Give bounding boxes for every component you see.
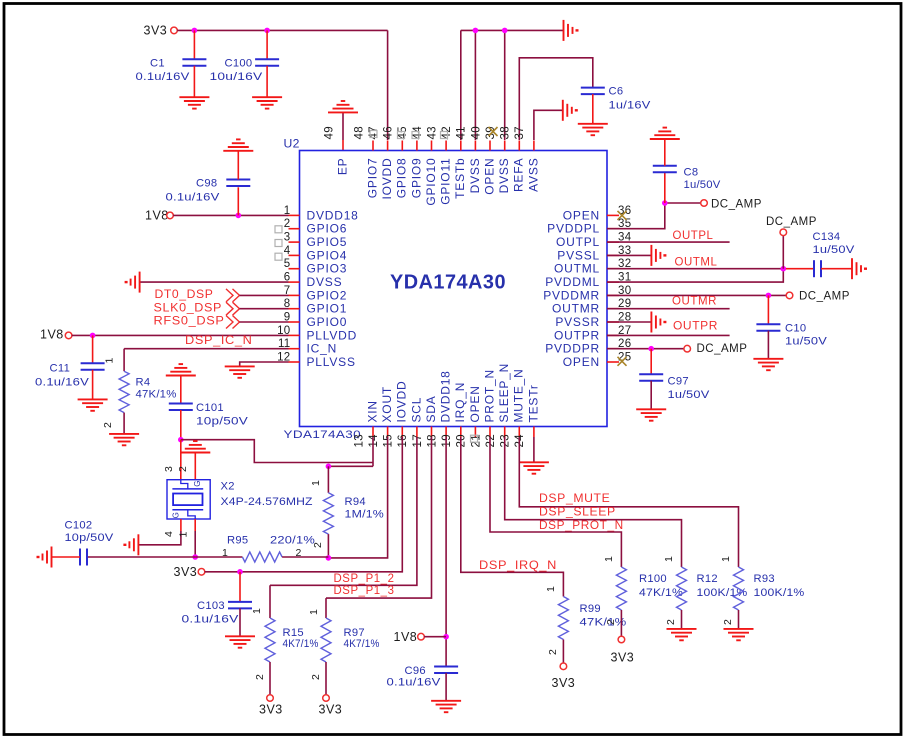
- svg-text:OUTPL: OUTPL: [673, 228, 714, 242]
- squares on top pin numbers: [370, 131, 377, 138]
- wire AVSS pin 37 to ground: [534, 110, 563, 140]
- wire DT0_DSP to pin 7: [240, 294, 289, 296]
- wire PROT_N pin 21 to R100: [490, 437, 621, 567]
- svg-text:PVDDMR: PVDDMR: [543, 288, 600, 302]
- ground (C134, right-facing): [851, 258, 853, 279]
- svg-text:C96: C96: [405, 665, 426, 677]
- svg-text:R4: R4: [136, 377, 151, 389]
- svg-text:40: 40: [470, 126, 482, 139]
- svg-text:C11: C11: [50, 363, 71, 375]
- svg-text:4K7/1%: 4K7/1%: [283, 638, 319, 650]
- svg-text:OUTPR: OUTPR: [673, 319, 718, 333]
- junction R94 top: [326, 464, 332, 470]
- svg-text:SLEEP_N: SLEEP_N: [497, 363, 511, 423]
- svg-text:1: 1: [308, 609, 320, 615]
- svg-text:13: 13: [353, 434, 365, 447]
- junction C10/DC_AMP: [766, 293, 772, 299]
- wire crystal pin 3 from C101 node: [180, 440, 182, 480]
- svg-text:4: 4: [163, 531, 175, 537]
- svg-text:2: 2: [296, 547, 302, 559]
- svg-text:19: 19: [441, 434, 453, 447]
- svg-text:1u/50V: 1u/50V: [684, 179, 721, 191]
- resistor R12: [677, 567, 687, 610]
- svg-text:GPIO9: GPIO9: [409, 158, 423, 199]
- svg-text:2: 2: [254, 674, 266, 680]
- right pin numbers 36-25: [618, 205, 632, 364]
- capacitor C98: [237, 187, 239, 215]
- wire 3V3 to pin 15 IOVDD: [205, 437, 403, 572]
- wire SLK0_DSP to pin 8: [240, 308, 289, 310]
- top pin numbers 48-37: [353, 126, 526, 140]
- svg-text:IOVDD: IOVDD: [395, 380, 409, 422]
- svg-text:DSP_IRQ_N: DSP_IRQ_N: [479, 558, 557, 572]
- wire DVDD18 pin 18 to C96: [445, 437, 447, 667]
- svg-text:C8: C8: [684, 167, 699, 179]
- svg-text:YDA174A30: YDA174A30: [284, 429, 362, 441]
- svg-text:IC_N: IC_N: [307, 342, 338, 356]
- ground (C11): [78, 398, 108, 400]
- svg-text:C1: C1: [150, 58, 165, 70]
- svg-text:C97: C97: [668, 376, 689, 388]
- ground (C6): [578, 123, 608, 125]
- junction C8/DC_AMP: [662, 200, 668, 206]
- wire PVDDMR pin 30 to C10/DC_AMP: [607, 294, 786, 296]
- svg-text:220/1%: 220/1%: [270, 535, 315, 547]
- wire RFS0_DSP to pin 9: [240, 321, 289, 323]
- wire 3V3 rail to pin 47 IOVDD: [177, 29, 387, 31]
- svg-text:GPIO6: GPIO6: [307, 222, 348, 236]
- wire SDA pin 17 to R97: [326, 437, 432, 598]
- wire 1V8 to pin 10 PLLVDD: [72, 334, 289, 336]
- svg-text:47K/1%: 47K/1%: [136, 389, 177, 401]
- wire PLLVSS pin 12 to ground: [240, 362, 289, 366]
- svg-text:DSP_PROT_N: DSP_PROT_N: [539, 518, 624, 532]
- wire XIN to R94: [328, 465, 373, 467]
- top pins 48-37 stubs: [373, 141, 534, 151]
- svg-text:EP: EP: [335, 158, 349, 176]
- svg-text:SLK0_DSP: SLK0_DSP: [154, 300, 223, 314]
- svg-text:OUTPL: OUTPL: [556, 235, 600, 249]
- svg-text:OPEN: OPEN: [482, 158, 496, 195]
- node 1V8 open circle: [167, 212, 174, 219]
- wire DSP_IC_N / R4 to pin 11 IC_N: [124, 348, 288, 350]
- node 3V3 open circle (bottom): [198, 569, 205, 576]
- svg-text:XOUT: XOUT: [380, 386, 394, 423]
- svg-text:PVSSR: PVSSR: [555, 315, 600, 329]
- svg-text:C103: C103: [197, 600, 225, 612]
- svg-text:1V8: 1V8: [145, 209, 169, 223]
- capacitor C10: [767, 295, 769, 324]
- wire MUTE_N pin 23 to R93: [519, 437, 738, 567]
- no-connect X mark pin 40 OPEN: [489, 127, 498, 136]
- wire crystal pin 1 down: [194, 519, 196, 531]
- svg-text:OPEN: OPEN: [563, 355, 600, 369]
- svg-text:X2: X2: [221, 481, 235, 493]
- resistor R94: [327, 466, 329, 493]
- svg-text:1V8: 1V8: [40, 328, 64, 342]
- svg-text:47K/1%: 47K/1%: [580, 617, 627, 629]
- svg-text:10p/50V: 10p/50V: [65, 532, 114, 544]
- svg-text:G: G: [171, 512, 180, 519]
- svg-text:DC_AMP: DC_AMP: [711, 199, 762, 211]
- svg-text:1u/50V: 1u/50V: [813, 244, 855, 256]
- svg-text:DC_AMP: DC_AMP: [697, 343, 748, 355]
- off-page chevron SLK0_DSP: [226, 302, 233, 315]
- capacitor C102: [79, 549, 81, 566]
- svg-text:GPIO4: GPIO4: [307, 248, 348, 262]
- ground (TESTr): [519, 461, 549, 463]
- svg-text:DVDD18: DVDD18: [439, 370, 453, 422]
- svg-text:YDA174A30: YDA174A30: [390, 272, 506, 294]
- junction on 3V3 rail at C1: [192, 28, 198, 34]
- capacitor C8: [664, 172, 666, 203]
- wire junction to DC_AMP circle: [668, 202, 701, 204]
- svg-text:GPIO1: GPIO1: [307, 302, 348, 316]
- wire DVSS/TESTb top ground rail: [460, 30, 462, 140]
- left pins 1-12 stubs: [289, 215, 300, 362]
- ground (C96): [431, 700, 461, 702]
- node 1V8 open circle (bottom): [418, 633, 425, 640]
- capacitor C101: [180, 376, 182, 404]
- wire OUTPL pin 34: [607, 241, 730, 243]
- ground (C97): [636, 408, 666, 410]
- wire SCL pin 16 to R15: [270, 437, 417, 585]
- capacitor C6: [581, 87, 605, 89]
- svg-text:36: 36: [618, 205, 631, 217]
- ground (EP): [328, 111, 358, 113]
- svg-text:R100: R100: [639, 573, 667, 585]
- svg-text:0.1u/16V: 0.1u/16V: [182, 614, 239, 626]
- svg-text:1: 1: [104, 357, 116, 363]
- wire OUTPR pin 27: [607, 334, 730, 336]
- node 3V3 open circle (R97): [323, 695, 330, 702]
- node DC_AMP open circle (C97): [684, 345, 691, 352]
- svg-text:1: 1: [545, 586, 557, 592]
- svg-text:24: 24: [514, 434, 526, 448]
- svg-text:DVSS: DVSS: [497, 157, 511, 193]
- junction C101/crystal/XOUT path: [178, 437, 184, 443]
- svg-text:GPIO8: GPIO8: [395, 158, 409, 199]
- svg-text:2: 2: [102, 422, 114, 428]
- svg-text:4: 4: [284, 245, 291, 257]
- ground (PVSSR, right-facing): [650, 312, 652, 333]
- svg-text:18: 18: [426, 434, 438, 447]
- svg-text:100K/1%: 100K/1%: [754, 587, 805, 599]
- wire XOUT pin 14 down to R95 junction: [328, 437, 387, 558]
- off-page chevron DT0_DSP: [226, 289, 233, 302]
- junction pin 39 on ground rail: [502, 28, 508, 34]
- node 3V3 open circle (R100): [618, 636, 625, 643]
- junction on 3V3 rail at C100: [264, 28, 270, 34]
- svg-text:1: 1: [663, 556, 675, 562]
- svg-text:DVDD18: DVDD18: [307, 208, 359, 222]
- wire PVDDML pin 31: [607, 269, 783, 282]
- svg-text:23: 23: [500, 434, 512, 447]
- crystal X2: [167, 480, 210, 519]
- svg-text:38: 38: [500, 126, 512, 139]
- node DC_AMP open circle (C10): [786, 292, 793, 299]
- svg-text:TESTr: TESTr: [526, 384, 540, 422]
- svg-text:DC_AMP: DC_AMP: [766, 216, 817, 228]
- left pin numbers 1-12: [277, 205, 291, 364]
- capacitor C97: [650, 349, 652, 375]
- resistor R95: [195, 556, 242, 558]
- svg-text:GPIO7: GPIO7: [365, 158, 379, 199]
- junction R94/R95/XOUT: [326, 555, 332, 561]
- svg-text:OUTML: OUTML: [675, 255, 718, 269]
- node 1V8 open circle (pin 10): [65, 332, 72, 339]
- svg-text:10p/50V: 10p/50V: [196, 416, 248, 428]
- svg-text:44: 44: [412, 126, 424, 140]
- svg-text:PROT_N: PROT_N: [482, 369, 496, 422]
- svg-text:C10: C10: [785, 323, 806, 335]
- wire PVDDPL pin 35 to C8/DC_AMP: [607, 203, 665, 229]
- ground (R93): [724, 628, 754, 630]
- svg-text:IOVDD: IOVDD: [380, 158, 394, 200]
- svg-text:TESTb: TESTb: [453, 158, 467, 199]
- svg-text:U2: U2: [284, 137, 300, 151]
- junction X2 pin1/C102/R95: [192, 554, 198, 560]
- resistor R99: [558, 597, 568, 640]
- svg-text:PLLVDD: PLLVDD: [307, 328, 358, 342]
- ground (C103): [225, 635, 255, 637]
- svg-text:R12: R12: [697, 573, 718, 585]
- ground (C98, above): [223, 150, 253, 152]
- wire PVDDPR pin 26 to C97/DC_AMP: [607, 348, 684, 350]
- svg-text:OUTMR: OUTMR: [552, 302, 600, 316]
- svg-text:C102: C102: [65, 520, 93, 532]
- svg-text:PVDDPR: PVDDPR: [545, 342, 600, 356]
- wire junction to DC_AMP circle (C134): [782, 235, 784, 268]
- svg-text:OUTML: OUTML: [554, 262, 600, 276]
- capacitor C100: [266, 30, 268, 59]
- ground (DVSS pin6, left-facing): [139, 272, 141, 293]
- svg-text:2: 2: [605, 619, 617, 625]
- svg-text:3: 3: [284, 232, 291, 244]
- wire crystal pin 2 from ground: [194, 453, 196, 480]
- wire XIN pin 13 down: [372, 437, 374, 466]
- ground (X2 pin 2, above): [180, 452, 210, 454]
- svg-text:0.1u/16V: 0.1u/16V: [35, 377, 89, 389]
- resistor R15: [269, 585, 271, 618]
- wire C102 to crystal pin 1: [87, 556, 195, 558]
- svg-text:1u/50V: 1u/50V: [668, 389, 710, 401]
- svg-text:OPEN: OPEN: [468, 385, 482, 422]
- svg-text:21: 21: [470, 434, 482, 447]
- svg-text:16: 16: [397, 434, 409, 447]
- bottom pin names: [365, 363, 540, 423]
- svg-text:3V3: 3V3: [259, 703, 283, 717]
- svg-text:14: 14: [368, 434, 380, 448]
- junction C97/DC_AMP: [648, 346, 654, 352]
- svg-text:C98: C98: [196, 178, 217, 190]
- right pin names: [543, 208, 600, 369]
- svg-text:1: 1: [310, 480, 322, 486]
- svg-text:0.1u/16V: 0.1u/16V: [166, 192, 220, 204]
- svg-text:DSP_MUTE: DSP_MUTE: [539, 491, 610, 505]
- top pin names: [335, 157, 540, 205]
- svg-text:GPIO5: GPIO5: [307, 235, 348, 249]
- svg-text:1: 1: [603, 556, 615, 562]
- svg-text:PVDDPL: PVDDPL: [547, 222, 600, 236]
- ground (C101, above): [166, 375, 196, 377]
- ground (PLLVSS): [225, 365, 255, 367]
- wire 1V8 to junction: [424, 636, 446, 638]
- svg-text:SDA: SDA: [424, 395, 438, 422]
- capacitor C103: [239, 572, 241, 602]
- left pin names: [307, 208, 359, 369]
- svg-text:3V3: 3V3: [319, 703, 343, 717]
- ground (C100): [252, 96, 282, 98]
- op-amp/IC U2 YDA174A30 chip body: [300, 151, 608, 427]
- junction C134/DC_AMP: [781, 266, 787, 272]
- wire crystal pin 4 to side ground: [180, 519, 182, 531]
- wire XOUT path (C101 node to pin 14): [181, 440, 373, 463]
- wire IRQ_N pin 19 to R99: [461, 437, 564, 597]
- ground (PVSSL, right-facing): [650, 245, 652, 266]
- capacitor C11: [92, 335, 94, 363]
- capacitor C96: [434, 666, 458, 668]
- svg-text:41: 41: [456, 126, 468, 139]
- svg-text:3V3: 3V3: [552, 676, 576, 690]
- svg-text:DT0_DSP: DT0_DSP: [155, 287, 214, 301]
- svg-text:2: 2: [665, 619, 677, 625]
- svg-text:37: 37: [514, 126, 526, 139]
- no-connect X mark pin 25 OPEN: [618, 357, 627, 366]
- wire PVSSR pin 28 to ground: [607, 321, 651, 323]
- wire REFA pin 38 to C6: [519, 58, 593, 140]
- svg-text:C134: C134: [813, 231, 841, 243]
- ground (R4): [109, 433, 139, 435]
- svg-text:PVSSL: PVSSL: [557, 248, 600, 262]
- squares on left pin numbers: [275, 226, 282, 233]
- svg-text:R94: R94: [345, 496, 366, 508]
- junction C11/1V8: [90, 333, 96, 339]
- svg-text:0.1u/16V: 0.1u/16V: [387, 677, 441, 689]
- svg-text:DSP_IC_N: DSP_IC_N: [185, 333, 253, 347]
- svg-text:OPEN: OPEN: [563, 208, 600, 222]
- ground (X2 pin 4, left-facing): [137, 534, 139, 555]
- svg-text:G: G: [193, 480, 202, 487]
- svg-text:1: 1: [720, 556, 732, 562]
- svg-text:GPIO0: GPIO0: [307, 315, 348, 329]
- node DC_AMP open circle (C134): [780, 229, 787, 236]
- svg-text:DSP_P1_3: DSP_P1_3: [334, 583, 395, 597]
- off-page chevron RFS0_DSP: [226, 316, 233, 329]
- resistor R93: [734, 567, 744, 610]
- resistor R4: [123, 349, 125, 372]
- ground (C1): [179, 96, 209, 98]
- svg-text:45: 45: [397, 126, 409, 139]
- svg-text:DVSS: DVSS: [307, 275, 343, 289]
- svg-text:GPIO2: GPIO2: [307, 288, 348, 302]
- square on bottom pin number 21: [471, 435, 478, 442]
- svg-text:17: 17: [412, 434, 424, 447]
- wire TESTr pin 24 to ground: [533, 437, 535, 462]
- svg-text:PLLVSS: PLLVSS: [307, 355, 356, 369]
- ground (C102, left-facing): [51, 547, 53, 568]
- capacitor C134: [786, 268, 814, 270]
- svg-text:C100: C100: [225, 58, 253, 70]
- wire 1V8 to pin 1 DVDD18: [173, 214, 288, 216]
- junction C98/1V8: [236, 213, 242, 219]
- svg-text:GPIO3: GPIO3: [307, 262, 348, 276]
- svg-text:0.1u/16V: 0.1u/16V: [136, 71, 190, 83]
- svg-text:1u/16V: 1u/16V: [609, 100, 651, 112]
- svg-text:GPIO10: GPIO10: [424, 158, 438, 206]
- svg-text:1: 1: [222, 547, 228, 559]
- svg-text:R93: R93: [754, 573, 775, 585]
- wire PVSSL pin 33 to ground: [607, 254, 651, 256]
- node 3V3 open circle: [171, 27, 178, 34]
- svg-text:3V3: 3V3: [144, 24, 168, 38]
- svg-text:1: 1: [177, 531, 189, 537]
- wire OUTML pin 32 to C134 junction: [607, 268, 783, 270]
- ground (AVSS, right-facing): [562, 100, 564, 121]
- svg-text:REFA: REFA: [512, 158, 526, 193]
- svg-text:1: 1: [251, 608, 263, 614]
- junction 1V8/C96: [443, 634, 449, 640]
- capacitor C1: [193, 30, 195, 59]
- svg-text:2: 2: [310, 674, 322, 680]
- right pins 36-25 stubs: [607, 215, 619, 362]
- bottom pin numbers 13-24: [353, 434, 526, 448]
- wire EP pin 49 to ground: [342, 140, 344, 151]
- svg-text:4K7/1%: 4K7/1%: [344, 638, 380, 650]
- svg-text:R99: R99: [580, 603, 601, 615]
- ground (top rail, right-facing): [563, 20, 565, 41]
- svg-text:X4P-24.576MHZ: X4P-24.576MHZ: [221, 496, 313, 508]
- svg-text:PVDDML: PVDDML: [545, 275, 600, 289]
- ground (C10): [753, 358, 783, 360]
- svg-text:C101: C101: [196, 402, 224, 414]
- svg-text:2: 2: [722, 619, 734, 625]
- wire OUTMR pin 29: [607, 308, 730, 310]
- svg-text:20: 20: [456, 434, 468, 447]
- svg-text:15: 15: [383, 434, 395, 447]
- svg-text:DSP_SLEEP: DSP_SLEEP: [539, 505, 616, 519]
- svg-text:43: 43: [426, 126, 438, 139]
- ground (R12): [667, 628, 697, 630]
- svg-text:AVSS: AVSS: [526, 158, 540, 192]
- svg-text:2: 2: [177, 466, 189, 472]
- svg-text:22: 22: [485, 434, 497, 447]
- svg-text:R95: R95: [227, 535, 248, 547]
- svg-text:RFS0_DSP: RFS0_DSP: [154, 313, 225, 327]
- svg-text:OUTPR: OUTPR: [554, 328, 600, 342]
- no-connect X mark pin 36 OPEN: [618, 211, 627, 220]
- svg-text:46: 46: [383, 126, 395, 139]
- svg-text:DVSS: DVSS: [468, 158, 482, 194]
- svg-text:49: 49: [323, 126, 335, 139]
- svg-text:48: 48: [353, 126, 365, 139]
- svg-text:10u/16V: 10u/16V: [210, 71, 263, 83]
- svg-text:5: 5: [284, 258, 291, 270]
- svg-text:1u/50V: 1u/50V: [785, 336, 827, 348]
- wire DVSS pin 6 to ground: [140, 281, 289, 283]
- junction 3V3/C103: [237, 569, 243, 575]
- svg-text:OUTMR: OUTMR: [672, 294, 717, 308]
- node 3V3 open circle (R99): [560, 663, 567, 670]
- svg-text:DC_AMP: DC_AMP: [799, 291, 850, 303]
- wire SLEEP_N pin 22 to R12: [505, 437, 682, 567]
- svg-text:1M/1%: 1M/1%: [345, 509, 385, 521]
- node DC_AMP open circle (top): [701, 200, 708, 207]
- svg-text:IRQ_N: IRQ_N: [453, 382, 467, 423]
- svg-text:MUTE_N: MUTE_N: [512, 368, 526, 422]
- svg-text:2: 2: [284, 218, 291, 230]
- node 3V3 open circle (R15): [267, 695, 274, 702]
